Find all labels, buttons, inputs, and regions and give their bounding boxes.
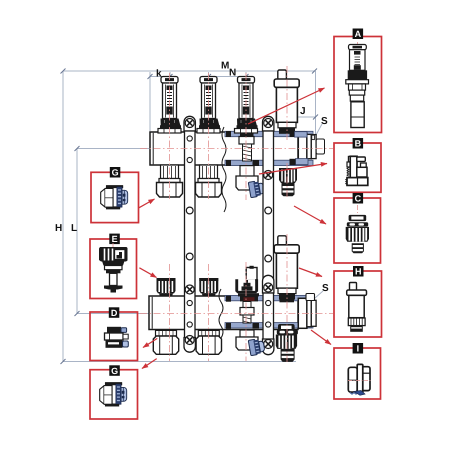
dimension line k bbox=[150, 76, 170, 78]
outlet 3 valve inside bottom bar bbox=[240, 302, 254, 324]
outlet 3 valve inside top bar bbox=[239, 137, 254, 162]
top manifold end cap bbox=[307, 134, 311, 158]
leader arrow to D bbox=[143, 338, 157, 347]
bottom manifold end cap bbox=[307, 300, 311, 327]
leader arrow from G1 bbox=[139, 199, 155, 208]
break squiggle bottom bbox=[219, 289, 223, 338]
bottom end top port bbox=[306, 294, 315, 301]
centerline outlet 2 upper bbox=[208, 73, 210, 199]
leader arrow from E bbox=[139, 268, 156, 278]
leader S bottom bbox=[311, 291, 323, 302]
top rail upper (steel rod) bbox=[225, 131, 313, 136]
dimension line L vertical bbox=[76, 149, 78, 314]
dimension labels bbox=[55, 61, 329, 295]
bottom rail upper (steel rod) bbox=[225, 295, 313, 300]
extension line N left bbox=[208, 72, 210, 80]
svg-text:G: G bbox=[112, 168, 119, 178]
callout box E bbox=[90, 239, 137, 299]
part E: valve insert detail bbox=[99, 243, 128, 293]
extension line k right bbox=[169, 72, 171, 80]
centerline outlet 1 upper bbox=[169, 73, 171, 199]
leader S top bbox=[316, 124, 322, 136]
dimension line M horizontal bbox=[63, 70, 316, 72]
svg-text:G: G bbox=[111, 366, 118, 376]
valve cap 2 bottom bar bbox=[199, 278, 218, 297]
bottom manifold right end ring bbox=[298, 298, 307, 328]
dimension ticks bbox=[61, 69, 319, 365]
callout box B bbox=[334, 143, 381, 192]
part A: flow meter detail bbox=[346, 42, 369, 128]
centerline top manifold axis bbox=[140, 148, 333, 150]
flow meter 3 bbox=[235, 77, 258, 134]
top manifold end plug S bbox=[311, 135, 316, 159]
flow meter 1 bbox=[158, 77, 181, 134]
drain valve below top bar bbox=[279, 168, 297, 196]
outlet 3 union with blue elbow (top bar) bbox=[236, 166, 265, 198]
centerline air vent top bbox=[286, 66, 288, 140]
centerline outlet 2 lower bbox=[208, 264, 210, 361]
part G1: eurocone fitting bbox=[101, 185, 128, 209]
centerline outlet 3 lower bbox=[245, 262, 247, 361]
callout box C bbox=[334, 198, 381, 263]
svg-text:L: L bbox=[71, 223, 77, 234]
part I: end plug detail bbox=[348, 364, 371, 395]
part D: adapter fitting bbox=[105, 327, 129, 348]
leader arrow to C bbox=[294, 206, 326, 224]
svg-text:H: H bbox=[55, 223, 62, 234]
dimension extension L bottom bbox=[77, 313, 149, 315]
top manifold right end ring bbox=[298, 133, 307, 160]
outlet 3 bottom bar valve cup bbox=[235, 266, 259, 301]
bottom rail lower (steel rod) bbox=[225, 323, 313, 328]
bottom manifold body bbox=[149, 296, 298, 330]
dimension extension L top bbox=[77, 148, 150, 150]
drain valve with cap below bottom bar bbox=[276, 324, 298, 362]
dimension line N bbox=[209, 76, 247, 78]
part B: mounting bracket clamp bbox=[346, 156, 368, 185]
svg-text:J: J bbox=[300, 106, 306, 117]
extension line J left bbox=[287, 112, 289, 122]
extension line N right bbox=[245, 72, 247, 80]
svg-text:N: N bbox=[229, 68, 236, 79]
leader arrow to H bbox=[299, 268, 322, 277]
union outlet 1 top bar bbox=[157, 165, 183, 197]
valve cap 1 bottom bar bbox=[157, 278, 176, 297]
top manifold body bbox=[150, 132, 298, 165]
centerline outlet 1 lower bbox=[169, 264, 171, 361]
rod clamp blocks bbox=[226, 131, 295, 329]
union outlet 2 top bar bbox=[196, 165, 222, 197]
centerline outlet 3 upper bbox=[245, 73, 247, 200]
union outlet 1 bottom bar bbox=[153, 330, 178, 354]
air vent bottom bbox=[274, 236, 299, 300]
leader arrow to B bbox=[259, 164, 327, 175]
blue end fittings top bar bbox=[295, 132, 308, 137]
svg-text:A: A bbox=[355, 29, 362, 39]
dimension extension H bottom bbox=[63, 361, 296, 363]
svg-text:H: H bbox=[355, 267, 362, 277]
callout box G2 bbox=[90, 370, 138, 419]
part C: drain cap detail bbox=[346, 205, 369, 253]
callout box I bbox=[334, 348, 381, 399]
outlet 3 union with blue elbow (bottom bar) bbox=[236, 330, 265, 356]
callout box D bbox=[90, 312, 138, 361]
dimension line J bbox=[288, 116, 316, 118]
svg-text:I: I bbox=[357, 344, 360, 354]
right bracket (vertical) bbox=[263, 116, 274, 354]
svg-text:S: S bbox=[321, 116, 328, 127]
leader arrow to A bbox=[248, 88, 325, 124]
callout box H bbox=[334, 271, 382, 337]
extension line k left bbox=[149, 72, 151, 131]
svg-text:B: B bbox=[355, 139, 362, 149]
leader arrow to G2 bbox=[142, 359, 157, 369]
bottom manifold end plug S bbox=[311, 300, 316, 326]
left bracket (vertical) bbox=[184, 116, 195, 352]
callout box G1 bbox=[91, 172, 139, 222]
svg-text:D: D bbox=[111, 308, 118, 318]
svg-text:S: S bbox=[322, 283, 329, 294]
svg-text:C: C bbox=[355, 194, 362, 204]
union outlet 2 bottom bar bbox=[196, 330, 221, 354]
extension line J right vertical bbox=[315, 71, 317, 134]
dimension line H vertical bbox=[62, 71, 64, 362]
leader arrow to I bbox=[311, 330, 331, 345]
svg-text:E: E bbox=[112, 234, 118, 244]
top rail lower (steel rod) bbox=[225, 160, 313, 165]
break squiggle top bbox=[222, 127, 226, 212]
flow meter 2 bbox=[197, 77, 220, 134]
air vent top bbox=[274, 70, 299, 134]
centerline air vent bottom bbox=[286, 234, 288, 362]
part H: air vent detail bbox=[347, 283, 367, 332]
part G2: eurocone fitting bbox=[100, 382, 127, 406]
centerline bottom manifold axis bbox=[140, 313, 333, 315]
callout box A bbox=[334, 37, 382, 133]
centerline drain top bbox=[286, 163, 288, 198]
